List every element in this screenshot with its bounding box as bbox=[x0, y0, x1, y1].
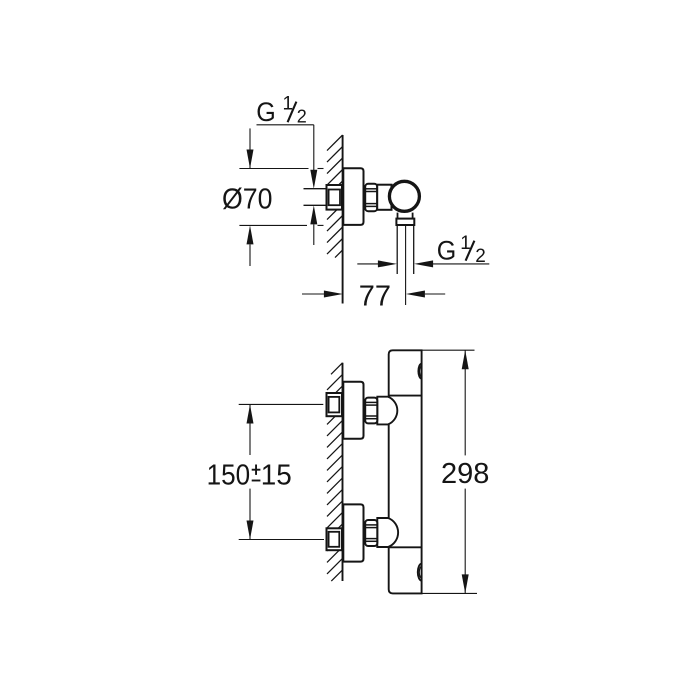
Ø70 lower arrow up bbox=[247, 225, 254, 244]
outlet centerline (top view) bbox=[405, 225, 407, 305]
svg-text:G: G bbox=[256, 97, 276, 127]
threaded nut bottom (bottom view) bbox=[365, 520, 377, 546]
extension line inlet bottom center bbox=[239, 539, 324, 541]
svg-text:15: 15 bbox=[261, 459, 292, 491]
escutcheon bottom (bottom view) bbox=[343, 504, 363, 561]
wall hatching (bottom view) bbox=[327, 363, 343, 581]
outlet collar (top view) bbox=[396, 219, 414, 225]
escutcheon top (bottom view) bbox=[343, 382, 363, 439]
boss top inlet bbox=[377, 397, 397, 425]
union nut on wall (top view) bbox=[327, 185, 343, 210]
svg-text:77: 77 bbox=[359, 280, 391, 312]
dimension G1/2 top leg bbox=[313, 125, 315, 171]
body seam top bbox=[389, 395, 422, 397]
boss bottom inlet bbox=[377, 518, 398, 547]
extension line escutcheon bottom bbox=[239, 224, 307, 226]
knob circle (top view) bbox=[389, 181, 419, 211]
dimension 298 extension top bbox=[422, 349, 475, 351]
dimension 150±15 line bbox=[249, 404, 251, 455]
threaded nut top (bottom view) bbox=[365, 398, 377, 424]
escutcheon (top view) bbox=[343, 168, 363, 225]
union nut inner square (top view) bbox=[329, 190, 340, 206]
wall line (top view) bbox=[342, 135, 344, 304]
dimension Ø70 left extension leg bbox=[249, 128, 251, 168]
wall line (bottom view) bbox=[342, 363, 344, 581]
screw bottom bbox=[418, 564, 422, 581]
svg-text:2: 2 bbox=[475, 246, 486, 267]
extension line inlet top center bbox=[239, 403, 324, 405]
G1/2 lower arrow up bbox=[310, 205, 317, 224]
screw top bbox=[418, 364, 421, 379]
supply pipe (top view) bbox=[304, 188, 328, 190]
dimension G1/2 top: shelf bbox=[257, 124, 314, 126]
svg-text:2: 2 bbox=[297, 107, 307, 127]
body seam bottom bbox=[389, 546, 422, 548]
body bar (bottom view) bbox=[389, 350, 422, 593]
wall hatching (top view) bbox=[327, 135, 343, 258]
valve body block (top view) bbox=[377, 185, 391, 210]
dimension 298 line bbox=[464, 350, 466, 455]
union nut bottom (bottom view) bbox=[327, 528, 343, 550]
outlet pipe (top view) bbox=[396, 225, 398, 274]
extension line escutcheon top bbox=[239, 168, 308, 170]
outlet neck (top view) bbox=[397, 213, 399, 219]
svg-text:150: 150 bbox=[207, 459, 251, 491]
threaded connection nut (top view) bbox=[365, 184, 377, 211]
svg-text:Ø70: Ø70 bbox=[222, 183, 273, 215]
svg-text:G: G bbox=[437, 236, 457, 266]
svg-text:298: 298 bbox=[441, 458, 489, 490]
dimension 77 (y 294) bbox=[302, 293, 324, 295]
union nut top (bottom view) bbox=[327, 393, 343, 416]
dimension 298 extension bottom bbox=[422, 592, 477, 594]
dimension G1/2 outlet (y 263.9) bbox=[357, 263, 378, 265]
